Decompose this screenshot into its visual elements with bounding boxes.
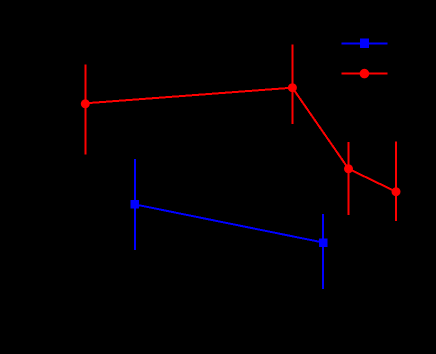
legend red entry line	[341, 72, 387, 74]
red error bar point 2	[292, 45, 294, 124]
legend red circle marker	[360, 69, 370, 79]
red marker point 4	[392, 187, 401, 196]
red series connecting line	[85, 88, 396, 192]
legend blue square marker	[360, 38, 369, 48]
red error bar point 4	[395, 142, 397, 221]
red marker point 3	[344, 164, 353, 173]
red marker point 1	[81, 99, 90, 108]
red error bar point 3	[348, 142, 350, 215]
blue error bar point 2	[322, 214, 324, 289]
blue square marker point 1	[131, 200, 140, 209]
legend blue entry line	[341, 42, 387, 44]
blue error bar point 1	[134, 159, 136, 250]
blue square marker point 2	[319, 238, 328, 247]
red marker point 2	[288, 83, 297, 92]
blue series connecting line	[135, 204, 323, 242]
red error bar point 1	[84, 65, 86, 155]
